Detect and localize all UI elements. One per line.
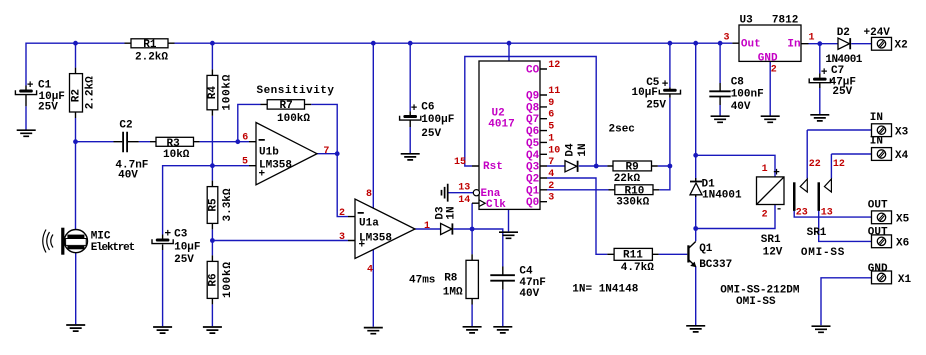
svg-text:CO: CO	[526, 65, 540, 77]
svg-text:OUT: OUT	[868, 227, 888, 239]
svg-text:100kΩ: 100kΩ	[277, 113, 310, 125]
svg-text:Q4: Q4	[526, 150, 540, 162]
svg-text:Q1: Q1	[699, 243, 713, 255]
svg-text:OMI-SS: OMI-SS	[801, 247, 845, 259]
svg-text:OUT: OUT	[868, 200, 888, 212]
svg-text:23: 23	[796, 208, 808, 219]
svg-text:1MΩ: 1MΩ	[443, 287, 463, 299]
svg-text:C6: C6	[421, 102, 434, 114]
svg-text:4: 4	[367, 265, 373, 276]
svg-text:D2: D2	[837, 27, 850, 39]
svg-text:5: 5	[548, 122, 554, 133]
svg-text:C2: C2	[119, 119, 132, 131]
svg-text:3: 3	[724, 33, 730, 44]
svg-text:40V: 40V	[731, 101, 751, 113]
svg-text:9: 9	[548, 98, 554, 109]
svg-text:Out: Out	[741, 38, 761, 50]
svg-text:4.7kΩ: 4.7kΩ	[621, 262, 654, 274]
svg-text:1: 1	[424, 221, 430, 232]
svg-text:2: 2	[771, 65, 777, 76]
svg-text:Q8: Q8	[526, 102, 540, 114]
svg-text:13: 13	[458, 183, 470, 194]
svg-text:Q0: Q0	[526, 197, 539, 209]
svg-text:+: +	[259, 169, 266, 181]
svg-text:GND: GND	[868, 263, 888, 275]
svg-text:SR1: SR1	[761, 234, 781, 246]
svg-text:25V: 25V	[832, 86, 852, 98]
svg-text:7: 7	[548, 157, 554, 168]
svg-text:100µF: 100µF	[421, 114, 454, 126]
svg-text:In: In	[787, 38, 800, 50]
svg-text:4: 4	[548, 169, 554, 180]
svg-text:+24V: +24V	[864, 27, 891, 39]
svg-text:Sensitivity: Sensitivity	[257, 85, 335, 97]
svg-text:R1: R1	[143, 39, 157, 51]
svg-text:MIC: MIC	[91, 230, 111, 242]
svg-text:2.2kΩ: 2.2kΩ	[85, 76, 97, 109]
svg-text:U2: U2	[492, 107, 505, 119]
svg-text:R7: R7	[280, 100, 293, 112]
svg-text:U1a: U1a	[359, 217, 379, 229]
svg-text:7812: 7812	[772, 14, 798, 26]
svg-text:6: 6	[242, 133, 248, 144]
svg-text:25V: 25V	[646, 100, 666, 112]
svg-text:14: 14	[458, 195, 470, 206]
svg-text:100kΩ: 100kΩ	[222, 262, 234, 298]
svg-text:X6: X6	[896, 237, 909, 249]
svg-text:22kΩ: 22kΩ	[614, 173, 641, 185]
svg-text:IN: IN	[870, 136, 883, 148]
svg-text:15: 15	[454, 157, 466, 168]
svg-text:+: +	[662, 79, 669, 91]
svg-text:6: 6	[548, 110, 554, 121]
svg-text:+: +	[411, 103, 418, 115]
svg-text:C4: C4	[519, 266, 533, 278]
svg-text:Q7: Q7	[526, 114, 539, 126]
svg-text:10kΩ: 10kΩ	[163, 149, 190, 161]
svg-text:25V: 25V	[421, 128, 441, 140]
svg-text:-: -	[776, 204, 783, 216]
svg-text:47nF: 47nF	[519, 277, 545, 289]
svg-text:10: 10	[548, 145, 560, 156]
svg-text:D4: D4	[564, 143, 576, 157]
svg-text:40V: 40V	[519, 288, 539, 300]
svg-text:C7: C7	[831, 65, 844, 77]
svg-text:C1: C1	[38, 79, 52, 91]
svg-text:11: 11	[548, 86, 560, 97]
svg-text:3: 3	[339, 232, 345, 243]
svg-text:R11: R11	[623, 250, 643, 262]
svg-text:Q5: Q5	[526, 138, 540, 150]
svg-text:SR1: SR1	[807, 227, 827, 239]
svg-text:2: 2	[339, 208, 345, 219]
svg-text:8: 8	[366, 189, 372, 200]
svg-text:OMI-SS: OMI-SS	[736, 296, 776, 308]
svg-text:R5: R5	[207, 198, 219, 212]
svg-text:4017: 4017	[488, 119, 514, 131]
svg-text:2: 2	[762, 210, 768, 221]
svg-text:U3: U3	[740, 14, 754, 26]
svg-text:Elektret: Elektret	[91, 242, 136, 254]
svg-text:47ms: 47ms	[409, 275, 435, 287]
svg-text:Q9: Q9	[526, 91, 539, 103]
svg-text:25V: 25V	[174, 254, 194, 266]
svg-text:1N: 1N	[445, 206, 457, 219]
svg-text:2.2kΩ: 2.2kΩ	[135, 51, 168, 63]
svg-text:C3: C3	[174, 229, 188, 241]
svg-text:100kΩ: 100kΩ	[222, 74, 234, 110]
svg-text:1N4001: 1N4001	[702, 190, 742, 202]
svg-text:X2: X2	[895, 40, 908, 52]
svg-text:R2: R2	[70, 89, 82, 102]
svg-text:X3: X3	[895, 127, 909, 139]
svg-text:X1: X1	[898, 274, 912, 286]
svg-text:5: 5	[242, 157, 248, 168]
svg-text:1: 1	[809, 33, 815, 44]
svg-text:1: 1	[762, 164, 768, 175]
svg-text:GND: GND	[758, 53, 778, 65]
svg-text:Q3: Q3	[526, 162, 540, 174]
svg-text:R6: R6	[207, 273, 219, 286]
svg-text:Q1: Q1	[526, 185, 540, 197]
svg-text:2: 2	[548, 181, 554, 192]
svg-text:10µF: 10µF	[174, 241, 200, 253]
svg-text:1N4001: 1N4001	[825, 54, 862, 66]
svg-text:X4: X4	[895, 150, 909, 162]
svg-text:3: 3	[548, 193, 554, 204]
svg-text:+: +	[821, 67, 828, 79]
svg-text:1N: 1N	[577, 143, 589, 156]
svg-text:12: 12	[833, 159, 845, 170]
svg-text:2sec: 2sec	[609, 124, 635, 136]
svg-text:U1b: U1b	[259, 146, 279, 158]
svg-text:Q2: Q2	[526, 174, 539, 186]
svg-text:40V: 40V	[118, 170, 138, 182]
svg-text:+: +	[773, 167, 780, 179]
svg-text:X5: X5	[896, 213, 910, 225]
svg-text:1: 1	[548, 133, 554, 144]
svg-text:+: +	[359, 239, 366, 251]
svg-text:OMI-SS-212DM: OMI-SS-212DM	[720, 285, 800, 297]
svg-text:R8: R8	[444, 272, 458, 284]
svg-text:12V: 12V	[763, 247, 783, 259]
svg-text:7: 7	[323, 146, 329, 157]
svg-text:R9: R9	[626, 162, 639, 174]
svg-text:13: 13	[821, 208, 833, 219]
svg-text:Q6: Q6	[526, 126, 539, 138]
svg-text:R4: R4	[207, 86, 219, 100]
svg-text:1N= 1N4148: 1N= 1N4148	[572, 284, 638, 296]
svg-text:+: +	[165, 229, 172, 241]
svg-text:3.3kΩ: 3.3kΩ	[222, 188, 234, 221]
svg-text:IN: IN	[870, 112, 883, 124]
svg-text:Rst: Rst	[483, 161, 503, 173]
svg-text:Clk: Clk	[486, 199, 506, 211]
svg-text:10µF: 10µF	[632, 87, 658, 99]
svg-text:330kΩ: 330kΩ	[616, 197, 649, 209]
svg-text:C8: C8	[731, 76, 745, 88]
svg-text:12: 12	[548, 60, 560, 71]
svg-text:100nF: 100nF	[731, 89, 764, 101]
svg-text:+: +	[27, 80, 34, 92]
svg-text:BC337: BC337	[699, 259, 732, 271]
svg-text:25V: 25V	[38, 101, 58, 113]
svg-text:22: 22	[809, 159, 821, 170]
